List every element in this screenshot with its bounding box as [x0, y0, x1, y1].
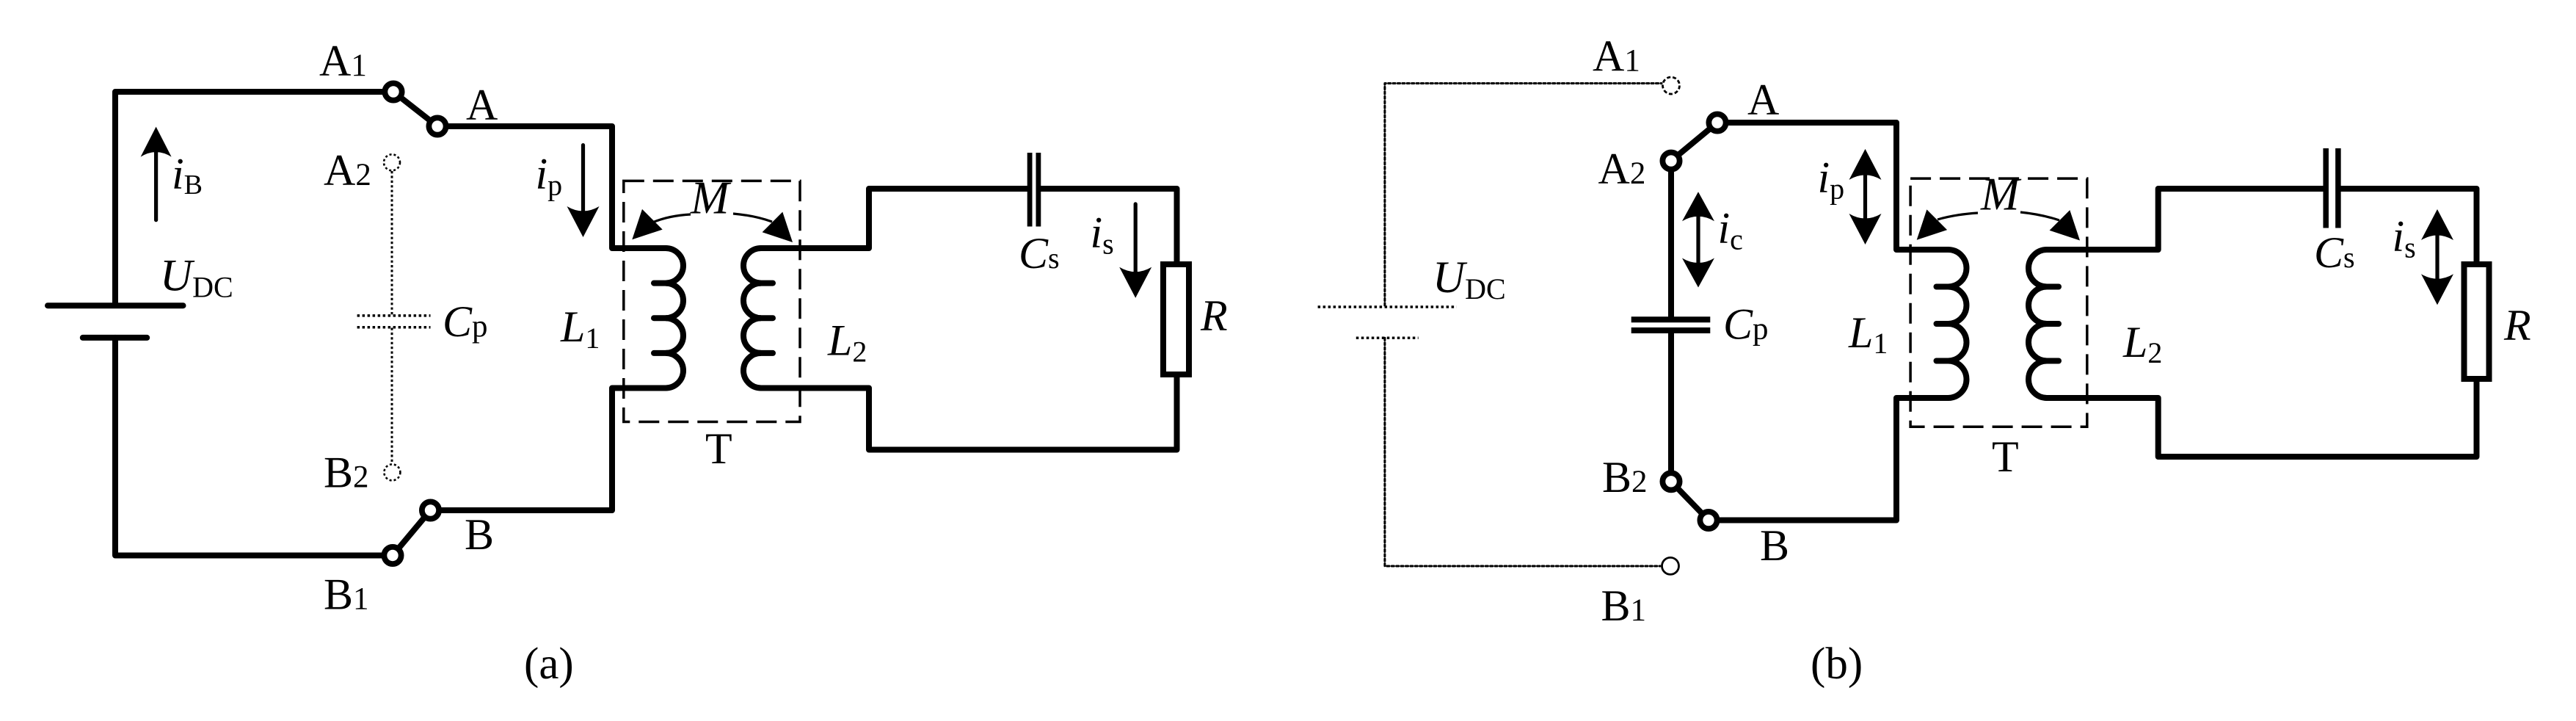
svg-text:M: M	[690, 172, 732, 223]
current arrow i_p (bidirectional) (b)	[1863, 174, 1867, 220]
secondary winding L2 loop stubs (b)	[2042, 284, 2059, 290]
switch pole circle B	[422, 501, 439, 518]
capacitor Cp bottom plate (dotted, inactive)	[357, 326, 431, 329]
mutual coupling arrow right (b)	[2020, 212, 2059, 220]
svg-text:M: M	[1980, 168, 2022, 220]
wire from pole B up to primary coil bottom (b)	[1709, 398, 1949, 521]
switch S_B blade from B2 to pole B (b)	[1671, 482, 1709, 521]
wire from pole A down to primary coil L1	[437, 126, 666, 248]
current arrow i_c (bidirectional)	[1696, 215, 1700, 264]
svg-text:A: A	[466, 81, 498, 129]
switch pole circle A	[429, 117, 445, 134]
current arrow i_s (bidirectional) (b)	[2435, 234, 2439, 280]
dotted inactive wire capacitor Cp to B2	[391, 328, 393, 464]
svg-text:T: T	[1992, 432, 2019, 481]
dotted open terminal circle A2	[384, 154, 400, 170]
battery U_DC long plate (dotted, inactive) (b)	[1318, 305, 1457, 308]
switch terminal circle A2 (b)	[1662, 153, 1679, 170]
wire from pole A to primary coil (b)	[1717, 123, 1949, 250]
primary winding L1	[666, 248, 683, 388]
mutual coupling arrow right	[733, 214, 772, 222]
svg-text:R: R	[1200, 291, 1228, 340]
battery U_DC short (negative) plate	[83, 335, 147, 341]
secondary winding L2 loop stubs	[756, 280, 773, 286]
secondary coil top lead to resonant loop	[761, 189, 1027, 248]
secondary top wire from Cs to resistor R	[1041, 189, 1177, 264]
switch S_A blade from A2 to pole A (b)	[1671, 123, 1717, 161]
capacitor Cp top plate (b)	[1631, 316, 1711, 322]
switch terminal circle A1	[385, 83, 401, 100]
primary winding L1 (b)	[1949, 250, 1967, 398]
switch terminal circle B1	[384, 547, 401, 564]
open terminal circle A1 (b)	[1663, 77, 1680, 94]
resistor R body	[1163, 264, 1189, 374]
capacitor Cp bottom plate (b)	[1631, 327, 1711, 333]
svg-text:(a): (a)	[524, 640, 574, 689]
resistor R body (b)	[2464, 264, 2489, 379]
capacitor Cs left plate (b)	[2323, 148, 2329, 228]
primary winding L1 loop stubs	[654, 280, 671, 286]
battery U_DC short plate (dotted, inactive) (b)	[1356, 337, 1419, 340]
secondary winding L2 (b)	[2029, 250, 2047, 398]
svg-text:B: B	[465, 510, 494, 559]
dotted open terminal circle B2	[384, 464, 400, 480]
switch pole circle B (b)	[1700, 512, 1717, 529]
svg-text:(b): (b)	[1811, 640, 1863, 689]
switch S_B blade from B1 to pole B	[393, 510, 431, 556]
transformer T dashed coupling box (b)	[1910, 178, 2087, 427]
secondary bottom return wire (b)	[2047, 379, 2477, 457]
switch pole circle A (b)	[1709, 114, 1725, 131]
secondary bottom return wire	[761, 374, 1177, 450]
capacitor Cp top plate (dotted, inactive)	[357, 314, 431, 317]
open terminal circle B1 (b)	[1662, 557, 1679, 574]
secondary coil top lead to resonant loop (b)	[2047, 189, 2324, 250]
transformer T dashed coupling box	[624, 181, 800, 421]
secondary top wire from Cs to resistor R (b)	[2341, 189, 2477, 264]
battery negative lead and bottom rail wire to switch terminal B1	[115, 338, 389, 556]
mutual coupling arrow left	[652, 214, 691, 222]
switch terminal circle B2 (b)	[1662, 473, 1679, 490]
figure (a) battery positive lead and top rail wire to switch terminal A1	[115, 92, 389, 305]
svg-text:A: A	[1747, 76, 1779, 124]
current arrow i_B (upward)	[154, 150, 158, 220]
primary winding L1 loop stubs (b)	[1937, 284, 1954, 290]
figure (b) dotted inactive battery positive lead and top rail to open terminal A1	[1385, 84, 1662, 306]
mutual coupling arrow left (b)	[1938, 213, 1978, 220]
secondary winding L2	[743, 248, 761, 388]
capacitor Cs right plate	[1036, 153, 1041, 227]
dotted inactive battery negative lead and bottom rail to open terminal B1 (b)	[1385, 338, 1660, 566]
svg-text:B: B	[1760, 521, 1789, 570]
battery U_DC long (positive) plate	[48, 302, 183, 308]
wire capacitor Cp to B2 (b)	[1668, 330, 1674, 482]
switch S_A blade from A1 to pole A	[393, 92, 437, 126]
svg-text:T: T	[705, 424, 732, 473]
current arrow i_s (downward)	[1134, 204, 1138, 275]
svg-text:R: R	[2503, 301, 2531, 349]
capacitor Cs right plate (b)	[2335, 148, 2341, 228]
dotted inactive wire A2 to capacitor Cp	[391, 171, 393, 315]
current arrow i_p (downward)	[581, 145, 585, 214]
wire from pole B up to primary coil L1 bottom	[431, 388, 666, 511]
capacitor Cs left plate	[1027, 153, 1033, 227]
wire A2 down to capacitor Cp (b)	[1668, 161, 1674, 317]
